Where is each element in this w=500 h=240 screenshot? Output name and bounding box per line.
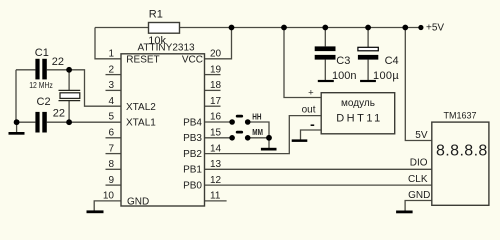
svg-text:9: 9 [108, 175, 114, 186]
wire pin7 stub [106, 153, 122, 155]
ground below buttons [261, 148, 277, 151]
capacitor C3 [315, 46, 357, 82]
svg-text:22: 22 [52, 56, 64, 68]
svg-text:15: 15 [210, 128, 222, 139]
wire pin18 stub [205, 89, 221, 91]
svg-text:DIO: DIO [410, 158, 428, 169]
pin numbers right [210, 49, 222, 202]
svg-text:C4: C4 [385, 55, 399, 67]
wire pin6 stub [106, 137, 122, 139]
capacitor C2 [35, 96, 65, 133]
wire buttons node to ground [268, 138, 270, 148]
svg-text:22: 22 [53, 108, 65, 120]
node buttons ground [266, 135, 272, 141]
svg-text:C2: C2 [37, 96, 51, 108]
svg-text:8: 8 [108, 159, 114, 170]
svg-text:3: 3 [108, 80, 114, 91]
svg-text:20: 20 [210, 49, 222, 60]
svg-text:4: 4 [108, 96, 114, 107]
module TM1637 display [408, 111, 489, 206]
wire button HH right down to MM node [248, 122, 269, 138]
wire pin19 stub [205, 74, 221, 76]
svg-text:C3: C3 [336, 55, 350, 67]
node crystal bottom [66, 119, 72, 125]
node rail C3 [322, 25, 328, 31]
svg-text:out: out [302, 104, 316, 115]
button MM [229, 127, 263, 140]
wire pin14 to DHT11 out [205, 116, 322, 154]
wire pin15 to button MM [205, 137, 233, 139]
node crystal top [66, 67, 72, 73]
svg-text:VCC: VCC [182, 54, 203, 65]
wire C3 top [324, 28, 326, 47]
svg-text:XTAL2: XTAL2 [126, 102, 156, 113]
node C2 left [14, 119, 20, 125]
module DHT11 [302, 87, 395, 133]
wire R1 to pin1 loop [95, 28, 121, 59]
svg-text:11: 11 [210, 191, 221, 202]
svg-text:DHT11: DHT11 [336, 112, 383, 124]
svg-text:12 MHz: 12 MHz [29, 80, 53, 90]
svg-text:5V: 5V [415, 130, 428, 141]
wire left vertical C1 to C2 [15, 70, 17, 122]
wire pin10 to ground [94, 201, 121, 211]
wire pin17 stub [205, 105, 221, 107]
svg-text:7: 7 [108, 143, 114, 154]
wire crystal vertical top [68, 70, 70, 90]
svg-text:PB1: PB1 [183, 165, 202, 176]
wire pin11 stub [205, 200, 227, 202]
svg-text:+5V: +5V [426, 23, 444, 34]
wire rail to TM1637 5V [405, 28, 432, 141]
wire pin12 to TM1637 CLK [205, 184, 432, 186]
svg-text:CLK: CLK [408, 174, 428, 185]
op IC U1 ATTINY2313 [121, 43, 205, 208]
svg-text:14: 14 [210, 143, 222, 154]
svg-text:PB2: PB2 [183, 149, 202, 160]
svg-text:XTAL1: XTAL1 [126, 118, 156, 129]
wire rail to DHT11 plus [284, 28, 321, 98]
svg-text:RESET: RESET [126, 54, 159, 65]
svg-text:+: + [308, 87, 314, 98]
wire C2 left [16, 121, 35, 123]
wire crystal top to pin4 XTAL2 [69, 70, 121, 106]
wire DHT11 minus to ground [301, 130, 322, 140]
button HH [229, 112, 261, 125]
wire pin20 VCC to rail [205, 28, 232, 59]
wire pin9 stub [106, 184, 122, 186]
capacitor C4 (electrolytic) [358, 47, 400, 82]
wire pin2 stub [106, 74, 122, 76]
wire +5V rail [95, 27, 149, 29]
svg-text:2: 2 [108, 64, 114, 75]
wire pin13 to TM1637 DIO [205, 168, 432, 170]
wire C4 top [367, 28, 369, 48]
wire C1 left [16, 69, 35, 71]
svg-text:17: 17 [210, 96, 222, 107]
svg-text:12: 12 [210, 175, 222, 186]
svg-text:1: 1 [108, 49, 114, 60]
node rail C4 [365, 25, 371, 31]
svg-text:18: 18 [210, 80, 222, 91]
wire TM1637 GND to ground [405, 201, 432, 211]
svg-text:TM1637: TM1637 [444, 111, 477, 121]
wire pin16 to button HH [205, 121, 233, 123]
svg-text:10: 10 [103, 191, 115, 202]
svg-text:C1: C1 [35, 47, 49, 59]
svg-text:13: 13 [210, 159, 222, 170]
wire button MM right [248, 137, 269, 139]
svg-text:модуль: модуль [341, 98, 375, 109]
svg-text:PB4: PB4 [183, 117, 202, 128]
svg-text:100µ: 100µ [373, 70, 399, 82]
capacitor C1 [35, 47, 64, 79]
pin numbers left [103, 49, 115, 202]
wire C4 bottom to ground [367, 60, 369, 81]
ground below C2 [9, 132, 25, 135]
svg-text:MM: MM [252, 127, 263, 137]
svg-text:GND: GND [127, 196, 149, 207]
svg-text:5: 5 [108, 112, 114, 123]
ground below DHT11 minus [292, 139, 308, 142]
wire C3 bottom to ground [324, 60, 326, 81]
svg-text:8.8.8.8: 8.8.8.8 [436, 143, 488, 160]
svg-text:R1: R1 [149, 9, 163, 21]
ground below C3 [318, 80, 334, 82]
ground below C4 [360, 80, 376, 82]
svg-text:PB0: PB0 [183, 181, 202, 192]
crystal 12 MHz [29, 80, 80, 100]
wire C1 right to crystal node [47, 69, 69, 71]
svg-text:ATTINY2313: ATTINY2313 [138, 43, 195, 54]
wire pin3 stub [106, 89, 122, 91]
wire ground stub below C2 node [16, 122, 18, 132]
svg-text:100n: 100n [332, 70, 356, 82]
node rail VCC [229, 25, 235, 31]
node rail TM 5V [402, 25, 408, 31]
svg-text:GND: GND [408, 190, 430, 201]
svg-text:HH: HH [252, 112, 261, 122]
wire pin8 stub [106, 168, 122, 170]
svg-text:PB3: PB3 [183, 133, 202, 144]
node rail DHT plus [281, 25, 287, 31]
node +5V terminal [418, 25, 423, 30]
ground below TM1637 [396, 211, 413, 214]
svg-text:16: 16 [210, 112, 222, 123]
resistor R1 [148, 9, 179, 48]
wire crystal vertical bottom [68, 101, 70, 123]
ground below pin10 [87, 210, 104, 213]
svg-text:19: 19 [210, 64, 222, 75]
wire C2 row to pin5 XTAL1 [47, 121, 121, 123]
svg-text:6: 6 [108, 128, 114, 139]
